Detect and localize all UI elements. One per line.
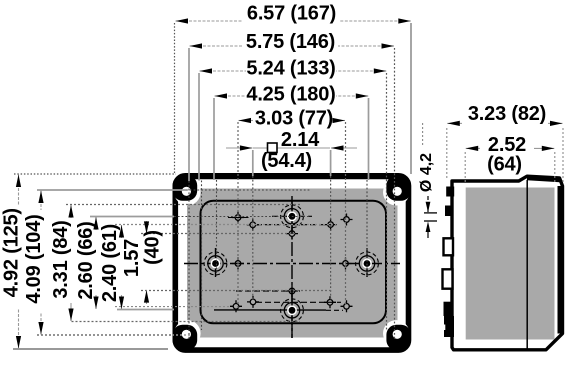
svg-text:5.24 (133): 5.24 (133) bbox=[246, 58, 335, 80]
small hole c bbox=[325, 219, 337, 231]
horizontal centerline middle row bbox=[184, 263, 400, 265]
small hole h bbox=[230, 300, 242, 312]
dimension 3.23 (82) bbox=[447, 103, 563, 182]
svg-text:3.03 (77): 3.03 (77) bbox=[255, 108, 333, 130]
mounting hole left-middle bbox=[204, 248, 227, 280]
dimension 2.40 (61) bbox=[99, 224, 122, 309]
extension lines vertical from top dims bbox=[175, 23, 412, 340]
svg-text:Ø 4,2: Ø 4,2 bbox=[418, 153, 435, 192]
small hole l bbox=[247, 219, 259, 231]
dimension 2.60 (66) bbox=[75, 217, 97, 309]
lid face inner outline bbox=[201, 201, 387, 324]
centerline top hole row bbox=[228, 216, 312, 217]
side view body bbox=[446, 176, 562, 350]
dimension dia 4,2 bbox=[418, 123, 437, 238]
svg-text:4.25 (180): 4.25 (180) bbox=[246, 84, 335, 106]
svg-text:1.57: 1.57 bbox=[121, 239, 143, 277]
small hole a bbox=[232, 212, 244, 224]
front view outer wall bbox=[175, 176, 408, 350]
small hole j bbox=[324, 296, 336, 308]
mounting hole top-center bbox=[281, 201, 304, 234]
corner screw boss bottom-right bbox=[383, 320, 411, 350]
centerline bottom hole row bbox=[214, 309, 343, 311]
svg-text:4.09 (104): 4.09 (104) bbox=[23, 214, 45, 303]
corner screw boss top-right bbox=[383, 175, 411, 205]
corner screw boss bottom-left bbox=[173, 320, 201, 350]
centerline row y301 bbox=[256, 301, 341, 303]
svg-text:3.23 (82): 3.23 (82) bbox=[468, 103, 546, 125]
dimension 4.09 (104) bbox=[23, 191, 45, 335]
mounting hole right-middle bbox=[356, 248, 379, 280]
svg-text:(64): (64) bbox=[487, 154, 522, 176]
small hole b bbox=[341, 214, 353, 226]
svg-text:2.14: 2.14 bbox=[281, 129, 320, 151]
extension lines horizontal from left dims bbox=[13, 174, 336, 349]
dimension 2.52 (64) bbox=[465, 134, 555, 184]
dimension 4.25 (180) bbox=[215, 84, 369, 106]
svg-text:5.75 (146): 5.75 (146) bbox=[246, 31, 335, 53]
small hole g bbox=[286, 285, 298, 297]
vertical centerline bbox=[291, 196, 293, 338]
centerline row y291 bbox=[236, 290, 300, 292]
dimension 6.57 (167) bbox=[176, 3, 411, 25]
dimension 1.57 (40) bbox=[121, 221, 164, 304]
centerline row y224 bbox=[256, 224, 336, 226]
front view recessed gray plate bbox=[187, 189, 398, 338]
svg-text:(54.4): (54.4) bbox=[261, 150, 312, 172]
dimension 2.14 (54.4) square hole bbox=[226, 129, 357, 172]
dimension 3.31 (84) bbox=[50, 205, 72, 321]
side view mounting tabs bbox=[441, 206, 454, 338]
svg-text:6.57 (167): 6.57 (167) bbox=[247, 3, 336, 25]
small hole f bbox=[340, 258, 352, 270]
svg-text:2.40 (61): 2.40 (61) bbox=[99, 224, 121, 302]
svg-text:3.31 (84): 3.31 (84) bbox=[50, 220, 72, 298]
small hole d bbox=[286, 228, 298, 240]
small hole i bbox=[247, 296, 259, 308]
corner screw boss top-left bbox=[173, 175, 201, 205]
dimension 3.03 (77) bbox=[239, 108, 346, 130]
small hole e bbox=[232, 258, 244, 270]
svg-text:(40): (40) bbox=[142, 230, 164, 265]
dimension 5.24 (133) bbox=[200, 58, 387, 80]
svg-text:4.92 (125): 4.92 (125) bbox=[1, 208, 23, 297]
small hole k bbox=[341, 300, 353, 312]
svg-text:2.60 (66): 2.60 (66) bbox=[75, 221, 97, 299]
mounting hole bottom-center bbox=[281, 291, 304, 338]
dimension 5.75 (146) bbox=[190, 31, 395, 53]
dimension 4.92 (125) bbox=[1, 175, 23, 349]
